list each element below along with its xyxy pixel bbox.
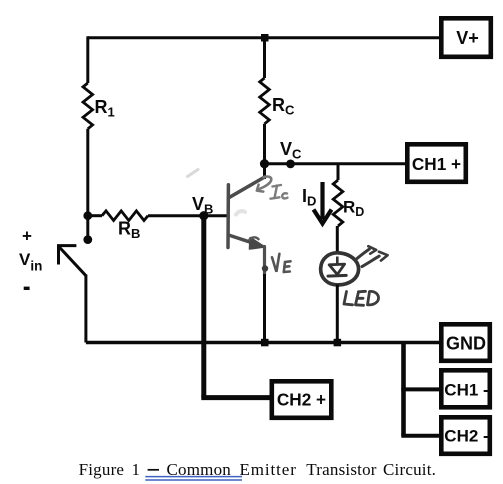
box V+	[441, 18, 491, 57]
wire LED bottom	[336, 285, 339, 343]
box GND	[441, 324, 490, 361]
svg-text:CH1 -: CH1 -	[444, 381, 488, 400]
wire input diagonal	[59, 247, 86, 276]
wire left vertical lower	[86, 129, 89, 240]
wire CH2- stub	[401, 434, 440, 438]
box CH1-	[441, 370, 490, 407]
svg-text:GND: GND	[446, 334, 486, 354]
wire input arrow barb vertical	[57, 245, 60, 265]
transistor Q1 emitter gray stub	[263, 247, 266, 276]
LED D1 top pin tick	[336, 257, 339, 265]
node junction emitter-bottom	[261, 339, 269, 347]
resistor R1	[83, 83, 93, 129]
LED D1 cathode bar	[328, 274, 346, 278]
node junction top rail	[261, 34, 269, 42]
svg-text:CH2 +: CH2 +	[277, 390, 326, 410]
resistor RB	[102, 211, 148, 221]
node VB	[199, 211, 208, 220]
wire RD bottom to LED	[336, 226, 339, 254]
transistor Q1 emitter arrowhead	[250, 238, 265, 249]
wire top rail V+	[88, 36, 440, 39]
transistor Q1 base bar	[226, 185, 230, 248]
arrow Ic curved	[259, 177, 272, 190]
wire right bus vertical	[401, 341, 406, 436]
arrow ID shaft	[320, 182, 324, 219]
svg-text:CH1 +: CH1 +	[412, 154, 461, 174]
wire RC bottom to VC	[263, 124, 266, 164]
node emitter dot	[262, 265, 268, 271]
arrow ID head	[314, 210, 332, 224]
resistor RD	[333, 180, 343, 226]
wire collector stub	[263, 164, 266, 179]
LED arrow 1 shaft	[356, 249, 369, 259]
smudge right of base bar	[236, 211, 245, 215]
caption underline blue double	[145, 477, 242, 480]
label VE handwritten	[272, 254, 291, 272]
wire RB left stub	[88, 214, 102, 217]
box CH2-	[441, 417, 490, 454]
LED arrow 2 shaft	[362, 256, 379, 267]
resistor RC	[260, 78, 270, 124]
node junction left upper	[83, 211, 92, 220]
wire emitter down	[263, 274, 266, 343]
node junction LED-bottom	[334, 339, 342, 347]
smudge near base left	[188, 170, 199, 177]
transistor Q1 emitter arrow curl	[250, 237, 259, 239]
svg-text:Figure1CommonEmitterTransistor: Figure1CommonEmitterTransistorCircuit.	[79, 460, 436, 479]
wire input arrow barb horizontal	[57, 244, 76, 247]
label LED handwritten	[344, 291, 379, 305]
transistor Q1 emitter stroke	[230, 235, 255, 243]
label Ic handwritten	[271, 185, 288, 199]
arrow Ic head	[257, 185, 264, 192]
svg-text:CH2 -: CH2 -	[444, 427, 488, 446]
LED arrow 1 head	[368, 246, 376, 254]
wire CH2+ branch horizontal	[201, 395, 271, 400]
wire CH2+ branch vertical	[201, 216, 206, 398]
box CH2+	[272, 381, 332, 418]
wire VC to CH1+	[265, 162, 407, 165]
label - (Vin minus)	[24, 287, 30, 290]
caption en-dash	[148, 469, 159, 471]
wire bottom rail	[86, 341, 440, 344]
LED D1 triangle	[329, 264, 344, 274]
LED arrow 2 head	[379, 252, 388, 261]
svg-text:+: +	[22, 227, 32, 246]
box CH1+	[407, 144, 466, 182]
node VC junction	[260, 159, 269, 168]
wire left bottom vertical	[84, 275, 87, 343]
wire RB right to VB	[148, 214, 227, 217]
LED D1 circle	[321, 253, 359, 285]
wire left vertical upper	[86, 36, 89, 83]
wire CH1- stub	[401, 387, 440, 391]
node VC dot right	[286, 160, 295, 169]
wire RC top	[263, 38, 266, 78]
transistor Q1 collector stroke	[230, 177, 265, 197]
wire RD top	[337, 164, 340, 180]
svg-text:V+: V+	[456, 28, 479, 48]
node junction left lower	[83, 235, 92, 244]
